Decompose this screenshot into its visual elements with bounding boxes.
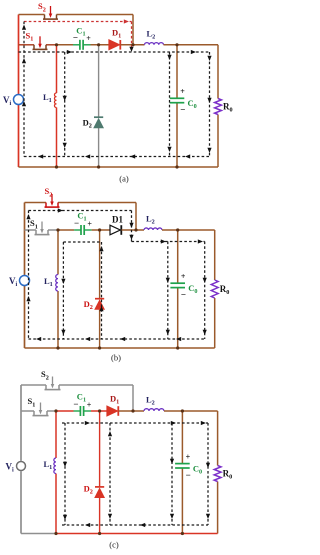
current loop left vertical — [23, 22, 25, 157]
wire rail2 to C1 — [57, 44, 74, 46]
resistor R0 — [214, 466, 221, 482]
diode D2 — [95, 300, 104, 309]
svg-text:(b): (b) — [111, 353, 121, 363]
wire C1 to D1 — [91, 44, 110, 46]
svg-text:(c): (c) — [109, 540, 119, 550]
capacitor C1 leads — [74, 410, 81, 412]
wire L1 branch — [56, 45, 58, 93]
current loop arrow — [26, 296, 30, 301]
inductor L2 — [144, 409, 164, 411]
current loop arrow — [167, 55, 171, 60]
current loop arrow — [108, 431, 112, 436]
resistor R0 — [211, 280, 218, 298]
wire rail2 left segment — [21, 410, 34, 412]
subfigure (c): mode 3 — [6, 369, 233, 549]
capacitor C1 — [80, 225, 82, 235]
current loop arrow — [26, 214, 30, 219]
current loop arrow — [38, 154, 43, 158]
current loop left vertical — [28, 211, 30, 340]
svg-text:(a): (a) — [119, 174, 129, 184]
svg-text:+: + — [180, 87, 185, 96]
current loop arrow — [140, 523, 145, 527]
svg-text:+: + — [87, 400, 92, 409]
diode D2 — [95, 489, 104, 498]
current loop vertical left of R0 — [207, 423, 209, 525]
switch S1 — [33, 45, 35, 50]
wire bottom rail — [25, 347, 215, 349]
current loop arrow — [85, 523, 90, 527]
current loop arrow — [61, 330, 65, 335]
capacitor C1 leads — [73, 44, 80, 46]
svg-text:−: − — [186, 470, 191, 480]
current loop (red dashed top) — [24, 21, 132, 23]
current loop vertical left of C0 — [167, 242, 169, 340]
diode D1 — [107, 406, 117, 416]
inductor L1 — [54, 458, 56, 474]
junction dots — [54, 409, 57, 412]
wire D2 branch — [99, 230, 101, 299]
svg-text:D1: D1 — [112, 215, 123, 225]
current loop vertical right of L1 — [64, 52, 66, 157]
current loop arrow — [170, 514, 174, 519]
subfigure (b): mode 2 — [9, 186, 229, 362]
wire S2 corner down to D1-L2 node — [132, 385, 134, 411]
current loop arrow — [63, 143, 67, 148]
wire D1 to L2 — [121, 44, 145, 46]
svg-text:+: + — [181, 272, 186, 281]
wire C0 branch — [177, 230, 179, 283]
current loop arrow — [130, 154, 135, 158]
current loop arrow — [36, 337, 41, 341]
diode D1 — [110, 225, 120, 235]
inductor L1 — [54, 93, 56, 108]
wire L1 branch — [57, 230, 59, 275]
capacitor C0 — [170, 97, 185, 99]
current loop horizontal under rail2 right — [132, 241, 205, 243]
current loop arrow — [129, 47, 133, 52]
current loop arrow — [161, 239, 166, 243]
current loop arrow — [22, 25, 26, 30]
current loop arrow — [108, 514, 112, 519]
svg-text:+: + — [86, 34, 91, 43]
source Vi — [14, 95, 24, 105]
current loop arrow — [170, 459, 174, 464]
wire L2 to right corner — [164, 44, 219, 46]
current loop arrow — [129, 223, 133, 228]
current loop arrow — [201, 421, 206, 425]
current loop arrow — [207, 98, 211, 103]
wire rail2 to C1 — [56, 410, 74, 412]
capacitor C0 — [170, 282, 185, 284]
current loop (red dashed drop) — [131, 22, 133, 50]
diode D2 — [94, 119, 103, 128]
junction dots — [55, 43, 58, 46]
current loop inner left vertical — [62, 242, 64, 339]
current loop vertical left of C0 — [171, 423, 173, 525]
wire top rail (S2 branch) — [25, 202, 47, 204]
current loop arrow — [206, 463, 210, 468]
switch S1 — [35, 230, 37, 235]
current loop bottom horizontal — [29, 338, 205, 340]
current loop arrow — [185, 154, 190, 158]
source Vi — [20, 276, 30, 286]
wire top rail (S2 branch) — [19, 14, 45, 16]
svg-text:−: − — [180, 105, 185, 115]
current loop vertical right of D2 — [109, 423, 111, 525]
current loop arrow — [124, 19, 129, 23]
capacitor C1 — [79, 406, 81, 416]
wire left rail — [18, 15, 20, 95]
wire S2 corner down to D1-L2 node — [135, 203, 137, 231]
inductor L2 — [144, 228, 162, 230]
wire rail2 left segment — [25, 229, 37, 231]
current loop arrow — [191, 50, 196, 54]
wire left rail — [24, 203, 26, 276]
diode D1 — [109, 40, 119, 50]
current loop vertical left of C0 — [169, 52, 171, 157]
current loop bottom horizontal — [62, 524, 208, 526]
junction dots — [56, 228, 59, 231]
current loop arrow — [166, 278, 170, 283]
current loop drop at D1-L2 node — [131, 211, 133, 242]
current loop arrow — [58, 208, 63, 212]
current loop horizontal under rail2 — [19, 51, 210, 53]
current loop vertical left of R0 — [209, 52, 211, 157]
current loop arrow — [203, 330, 207, 335]
current loop arrow — [61, 279, 65, 284]
current loop arrow — [120, 337, 125, 341]
inductor L2 — [145, 43, 164, 45]
current loop top horizontal — [29, 210, 132, 212]
current loop arrow — [167, 147, 171, 152]
wire bottom rail — [19, 166, 219, 168]
wire right rail — [217, 411, 219, 466]
current loop arrow — [22, 101, 26, 106]
wire C1 to D1 — [91, 410, 107, 412]
current loop arrow — [166, 330, 170, 335]
wire L1 branch — [55, 411, 57, 458]
wire rail2 left segment — [19, 44, 35, 46]
wire right rail — [217, 45, 219, 99]
capacitor C1 — [79, 40, 81, 50]
inductor L1 — [56, 275, 58, 292]
wire rail2 to C1 — [58, 229, 74, 231]
current loop arrow — [207, 56, 211, 61]
current loop arrow — [198, 239, 203, 243]
current loop arrow — [22, 58, 26, 63]
current loop vertical left of R0 — [204, 242, 206, 340]
current loop arrow — [99, 246, 103, 251]
current loop arrow — [206, 514, 210, 519]
current loop inner top — [63, 241, 101, 243]
switch S2 — [45, 385, 47, 390]
current loop arrow — [63, 96, 67, 101]
wire C0 branch — [176, 45, 178, 99]
wire D1 to L2 — [122, 229, 145, 231]
switch S1 — [33, 411, 35, 416]
capacitor C0 — [175, 463, 190, 465]
current loop top horizontal — [62, 422, 208, 424]
subfigure (a): mode 1 — [3, 1, 233, 183]
wire L2 to right corner — [162, 229, 215, 231]
current loop arrow — [85, 421, 90, 425]
current loop arrow — [85, 337, 90, 341]
current loop arrow — [171, 421, 176, 425]
capacitor C1 leads — [74, 229, 81, 231]
current loop arrow — [85, 154, 90, 158]
wire right rail — [214, 230, 216, 280]
source Vi — [17, 462, 26, 471]
svg-text:+: + — [87, 219, 92, 228]
current loop arrow — [129, 235, 133, 240]
svg-text:+: + — [186, 452, 191, 461]
wire C1 to D1 — [92, 229, 110, 231]
wire left rail — [20, 385, 22, 461]
wire top rail (S2 branch) — [21, 384, 46, 386]
switch S2 — [44, 15, 46, 20]
wire D1 to L2 — [119, 410, 145, 412]
wire L2 to right corner — [164, 410, 218, 412]
resistor R0 — [215, 99, 222, 115]
switch S2 — [45, 203, 47, 208]
wire D2 branch — [98, 45, 100, 117]
current loop arrow — [67, 50, 72, 54]
current loop arrow — [207, 148, 211, 153]
current loop arrow — [176, 337, 181, 341]
current loop arrow — [63, 515, 67, 520]
current loop arrow — [99, 306, 103, 311]
wire C0 branch — [181, 411, 183, 464]
current loop arrow — [203, 278, 207, 283]
current loop bottom horizontal — [24, 156, 210, 158]
wire S2 corner down to D1-L2 node — [132, 15, 134, 45]
wire bottom rail — [21, 533, 56, 535]
current loop arrow — [63, 462, 67, 467]
wire D2 branch — [99, 411, 101, 487]
svg-text:−: − — [181, 289, 186, 299]
current loop inner right vertical — [101, 242, 103, 339]
circuit schematic: three operating modes (a),(b),(c) of a two-switch converter — [0, 0, 234, 550]
current loop vertical right of L1 — [64, 423, 66, 525]
